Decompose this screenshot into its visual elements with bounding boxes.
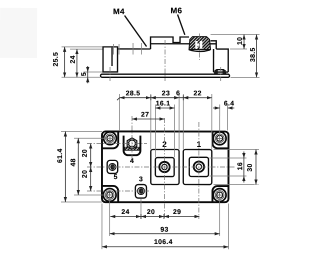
wire: ext hole br down	[219, 195, 221, 236]
dimension 38.5	[256, 35, 258, 78]
terminal 3	[135, 185, 146, 199]
right end inner edge	[213, 49, 215, 72]
wire: ext 16 bottom	[209, 175, 246, 177]
dimension 61.4	[64, 131, 66, 202]
tick 20/29	[163, 214, 165, 219]
svg-text:38.5: 38.5	[250, 47, 257, 62]
wire: extension line baseplate bottom left	[62, 76, 100, 78]
dimension row 24 20 29	[110, 215, 141, 217]
svg-text:16: 16	[237, 162, 244, 170]
body outline plan	[102, 131, 229, 202]
svg-text:10: 10	[237, 37, 244, 45]
terminal 2 box	[151, 149, 179, 184]
leader M4	[125, 15, 147, 46]
wire: extension baseplate bottom right	[231, 76, 260, 78]
wire: ext hole bottom left	[74, 194, 113, 196]
svg-text:30: 30	[247, 163, 254, 171]
faint paper tint top-left	[0, 8, 37, 58]
svg-text:23: 23	[162, 90, 170, 97]
dimension 30	[255, 150, 257, 185]
terminal 1 box	[183, 150, 212, 185]
wire: ext 16 top	[209, 157, 246, 159]
mounting hole bottom-right	[213, 189, 226, 202]
svg-text:22: 22	[194, 90, 202, 97]
svg-text:20: 20	[82, 170, 89, 178]
svg-text:16.1: 16.1	[156, 100, 171, 107]
dimension 27	[132, 118, 165, 120]
dimension row 28.5 23 6 22	[120, 97, 151, 99]
terminal 4 nut	[127, 138, 137, 149]
centerline horizontal main	[87, 166, 236, 168]
aux terminal ticks	[113, 44, 115, 54]
dimension 5	[87, 66, 89, 72]
svg-text:28.5: 28.5	[126, 90, 141, 97]
svg-text:24: 24	[121, 209, 129, 216]
svg-text:24: 24	[70, 55, 77, 63]
terminal 2 screw	[159, 162, 169, 172]
wire: extension body top right	[230, 48, 247, 50]
wire: ext 28.5 left	[119, 94, 121, 131]
mounting hole bottom-left	[103, 189, 116, 202]
terminal 5	[107, 160, 118, 173]
wire: ext 30 top	[213, 149, 259, 151]
wire: ext t1 right edge up	[211, 94, 213, 149]
svg-text:106.4: 106.4	[154, 239, 173, 246]
tick 22 left	[182, 95, 184, 100]
wire: ext 6.4 edge	[227, 105, 229, 131]
svg-text:29: 29	[173, 209, 181, 216]
wire: extension line case seam left	[84, 71, 104, 73]
wire: ext body top left	[61, 130, 102, 132]
wire: ext t3 down	[140, 198, 142, 219]
dimension 20 top	[90, 143, 92, 167]
module body side outline	[118, 48, 151, 50]
corner pad top-left	[102, 131, 118, 148]
centerline mount hole left	[109, 67, 111, 81]
centerline vertical terminal 4	[131, 116, 133, 162]
centerline terminal2 side	[164, 40, 166, 81]
wire: ext t2 right edge up	[178, 94, 180, 149]
corner pad bottom-left	[102, 186, 118, 202]
terminal 1 screw	[194, 162, 204, 172]
centerline mount hole right	[220, 67, 222, 81]
wire: ext t1 left edge up	[182, 94, 184, 149]
svg-text:61.4: 61.4	[57, 148, 64, 163]
svg-text:6: 6	[176, 90, 180, 97]
boss left flange	[103, 47, 118, 72]
centerline vertical terminal 2	[163, 118, 165, 219]
centerline horizontal terminal 3	[87, 190, 150, 192]
svg-text:M4: M4	[113, 7, 125, 16]
svg-text:M6: M6	[171, 6, 183, 15]
wire: ext t2 left edge up	[150, 94, 152, 149]
centerline horizontal terminal 4	[87, 142, 147, 144]
svg-text:48: 48	[70, 158, 77, 166]
svg-text:93: 93	[160, 227, 168, 234]
dimension 93	[110, 233, 220, 235]
wire: ext hole top left	[74, 137, 113, 139]
baseplate	[101, 74, 230, 77]
dimension 6.4	[213, 107, 220, 109]
tick 24/20	[140, 214, 142, 219]
svg-text:3: 3	[139, 176, 143, 183]
right foot trapezoid	[215, 70, 226, 74]
dimension 16	[243, 152, 245, 159]
dimension 106.4	[102, 246, 228, 248]
dimension 24	[76, 49, 78, 77]
dimension 25.5	[64, 47, 66, 77]
wire: ext 30 bottom	[213, 183, 259, 185]
leader M6	[178, 15, 185, 35]
wire: ext 16.1 left	[154, 104, 156, 157]
terminal 4 bar	[125, 147, 139, 150]
svg-text:5: 5	[81, 72, 88, 76]
terminal 4 U bracket	[124, 136, 141, 156]
wire: ext 16.1 right	[173, 105, 175, 158]
svg-text:20: 20	[82, 149, 89, 157]
wire: extension line body top left	[70, 48, 103, 50]
mounting hole top-left	[104, 132, 117, 145]
svg-text:5: 5	[114, 174, 118, 181]
terminal block raised	[151, 37, 190, 49]
corner pad top-right	[212, 132, 228, 149]
centerline terminal1 side	[199, 34, 201, 60]
wire: extension line boss top	[62, 46, 103, 48]
nut M6 side	[189, 37, 211, 50]
terminal 2 inner square	[155, 158, 174, 177]
dimension 10	[243, 35, 245, 49]
wire: ext 6.4 hole	[219, 105, 221, 145]
svg-text:6.4: 6.4	[224, 101, 235, 108]
wire: ext body bottom left	[61, 201, 102, 203]
tick 23 left	[150, 95, 152, 100]
dimension 20 bottom	[90, 167, 92, 191]
wire: extension nut top right	[211, 34, 260, 36]
corner pad bottom-right	[212, 186, 228, 202]
terminal 1 inner square	[189, 157, 208, 176]
svg-text:27: 27	[141, 112, 149, 119]
dimension 48	[77, 138, 79, 195]
wire: ext body left down	[101, 203, 103, 249]
centerline vertical terminal 1	[198, 122, 200, 219]
dimension 16.1	[155, 107, 174, 109]
wire: ext hole bl down	[109, 195, 111, 236]
washer below nut	[189, 50, 210, 52]
svg-text:20: 20	[147, 209, 155, 216]
svg-text:25.5: 25.5	[53, 52, 60, 67]
wire: ext body right down	[227, 204, 229, 250]
right end bottom seam	[214, 71, 229, 73]
mounting hole top-right	[213, 132, 226, 145]
